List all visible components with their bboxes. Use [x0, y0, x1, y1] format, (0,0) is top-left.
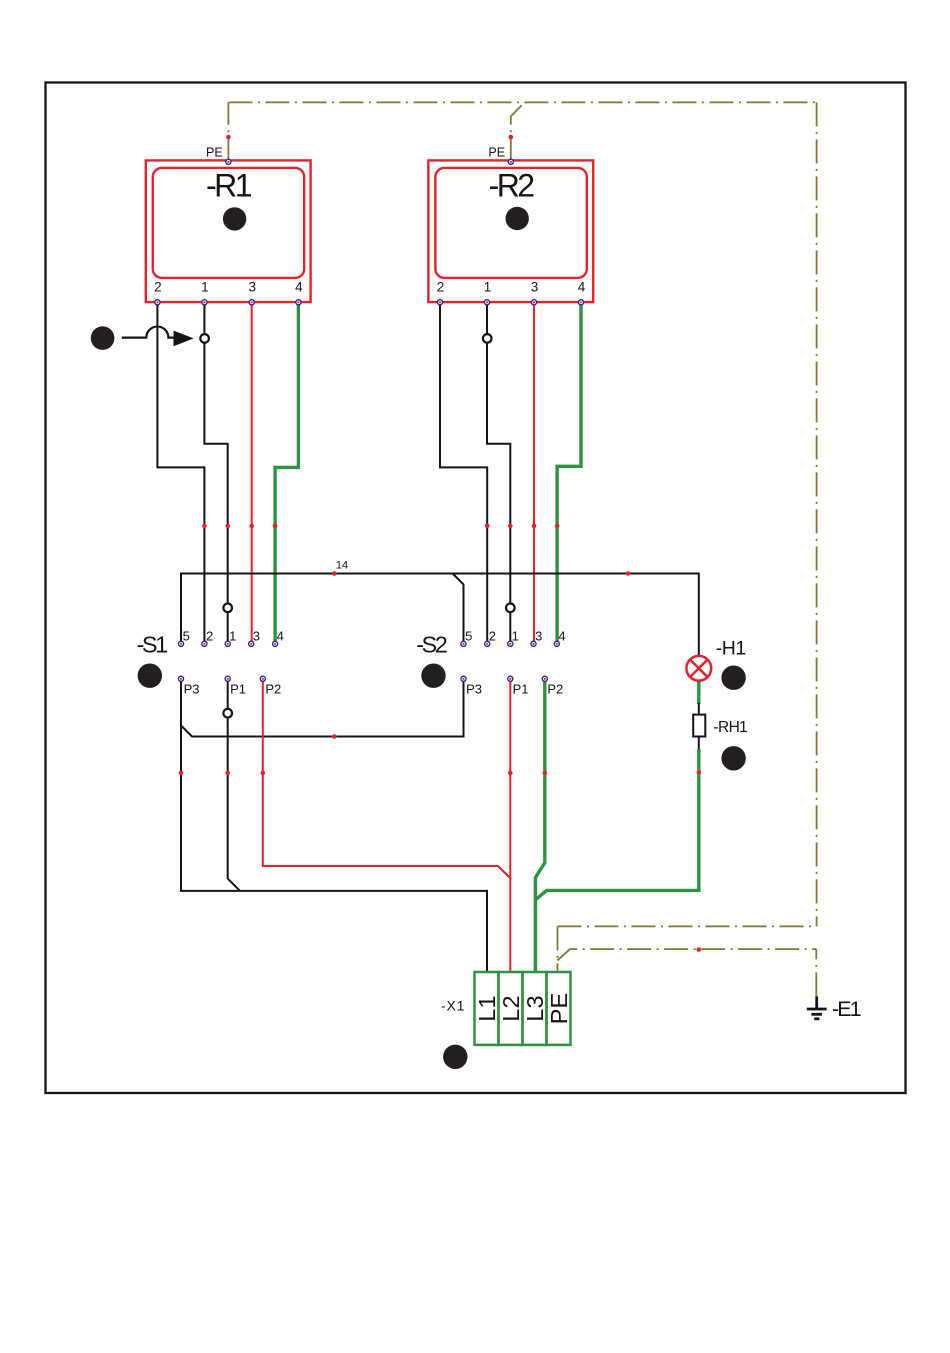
svg-text:3: 3 [248, 280, 256, 295]
S1 pin labels 5 2 1 3 4 [183, 629, 284, 644]
svg-text:1: 1 [201, 280, 209, 295]
svg-text:2: 2 [437, 280, 445, 295]
svg-text:P2: P2 [265, 682, 281, 697]
heater R2 outer box [428, 160, 593, 302]
wire R1:2 to S1:2 [157, 302, 204, 644]
wire R2:3 to S2:3 red [533, 302, 535, 644]
wire R1:4 to S1:4 green [275, 302, 298, 644]
red junction dots [179, 135, 701, 952]
svg-text:-X1: -X1 [441, 998, 465, 1014]
wire branch S1:P3 to S2:P3 [181, 679, 464, 737]
svg-text:P1: P1 [513, 682, 529, 697]
connector circles on wires [200, 334, 209, 343]
callout dot X1 [443, 1045, 467, 1069]
svg-text:P3: P3 [184, 682, 200, 697]
svg-text:P1: P1 [230, 682, 246, 697]
border frame [46, 83, 906, 1094]
svg-text:-R2: -R2 [489, 167, 535, 203]
terminal circles S2 [461, 641, 560, 681]
heater R1 outer box [146, 160, 311, 302]
svg-text:L3: L3 [522, 995, 548, 1021]
R1 pin numbers 2 1 3 4 [154, 280, 303, 295]
wire S1:P3 down to L1 bus [181, 679, 487, 972]
callout dot RH1 [721, 746, 745, 770]
svg-text:P3: P3 [466, 682, 482, 697]
svg-text:3: 3 [253, 629, 260, 644]
R2 pin numbers 2 1 3 4 [437, 280, 586, 295]
svg-text:14: 14 [336, 560, 348, 572]
terminal circles R2 [437, 159, 583, 305]
PE branch to E1 ground [815, 949, 817, 996]
PE dash-dot net from R1 PE to X1 PE [228, 102, 816, 996]
svg-text:L2: L2 [498, 995, 524, 1021]
terminal circles R1 [155, 159, 301, 305]
callout dot S2 [421, 664, 445, 688]
svg-text:4: 4 [277, 629, 284, 644]
svg-text:-R1: -R1 [206, 167, 253, 203]
svg-text:1: 1 [484, 280, 492, 295]
terminal circles S1 [178, 641, 277, 681]
svg-text:-H1: -H1 [716, 637, 746, 659]
svg-text:-E1: -E1 [832, 997, 862, 1021]
wire H1 to RH1 to X1 L3 [697, 681, 700, 704]
callout dot S1 [138, 664, 162, 688]
PE branch from R2 [511, 102, 525, 161]
callout dot in R2 [506, 207, 529, 230]
callout arrow pointing to connector on R1:1 wire [91, 326, 115, 350]
svg-text:P2: P2 [547, 682, 563, 697]
X1 terminal labels L1 L2 L3 PE rotated [474, 993, 572, 1024]
wire R2:2 to S2:2 [440, 302, 487, 644]
svg-text:1: 1 [512, 629, 519, 644]
svg-text:2: 2 [206, 629, 213, 644]
svg-text:PE: PE [206, 146, 223, 160]
wire R1:1 to S1:1 [204, 302, 227, 644]
terminal block X1 [475, 972, 571, 1045]
wire S2:P1 red to X1 L2 [509, 679, 511, 972]
svg-text:5: 5 [183, 629, 190, 644]
wire R2:1 to S2:1 [487, 302, 510, 644]
wire R2:4 to S2:4 green [557, 302, 581, 644]
svg-text:3: 3 [531, 280, 539, 295]
svg-text:L1: L1 [474, 995, 500, 1021]
bus branch to S2:5 [453, 574, 464, 644]
wire S2:P2 green to X1 L3 [535, 679, 544, 972]
svg-text:1: 1 [229, 629, 236, 644]
callout dot in R1 [223, 207, 246, 230]
heater R1 inner box [153, 168, 304, 278]
svg-text:5: 5 [465, 629, 472, 644]
bus 14 from S1:5 to H1 [181, 574, 699, 656]
svg-text:4: 4 [578, 280, 586, 295]
svg-text:PE: PE [546, 993, 572, 1024]
svg-text:3: 3 [535, 629, 542, 644]
svg-text:PE: PE [488, 146, 505, 160]
svg-text:-S2: -S2 [416, 631, 448, 657]
S2 pin labels 5 2 1 3 4 [465, 629, 566, 644]
ground symbol E1 [807, 996, 827, 1018]
svg-text:2: 2 [489, 629, 496, 644]
svg-text:4: 4 [295, 280, 303, 295]
heater R2 inner box [435, 168, 586, 278]
wire S1:P1 down merge L1 [228, 679, 240, 891]
wire S1:P2 red to L2 [263, 679, 511, 879]
wire R1:3 to S1:3 red [251, 302, 253, 644]
S1 P labels [184, 682, 282, 697]
S2 P labels [466, 682, 563, 697]
svg-text:4: 4 [558, 629, 565, 644]
resistor RH1 [693, 715, 705, 737]
svg-text:-RH1: -RH1 [713, 719, 747, 736]
callout dot H1 [721, 666, 745, 690]
svg-text:-S1: -S1 [137, 631, 169, 657]
svg-text:2: 2 [154, 280, 162, 295]
lamp H1 [686, 656, 711, 681]
